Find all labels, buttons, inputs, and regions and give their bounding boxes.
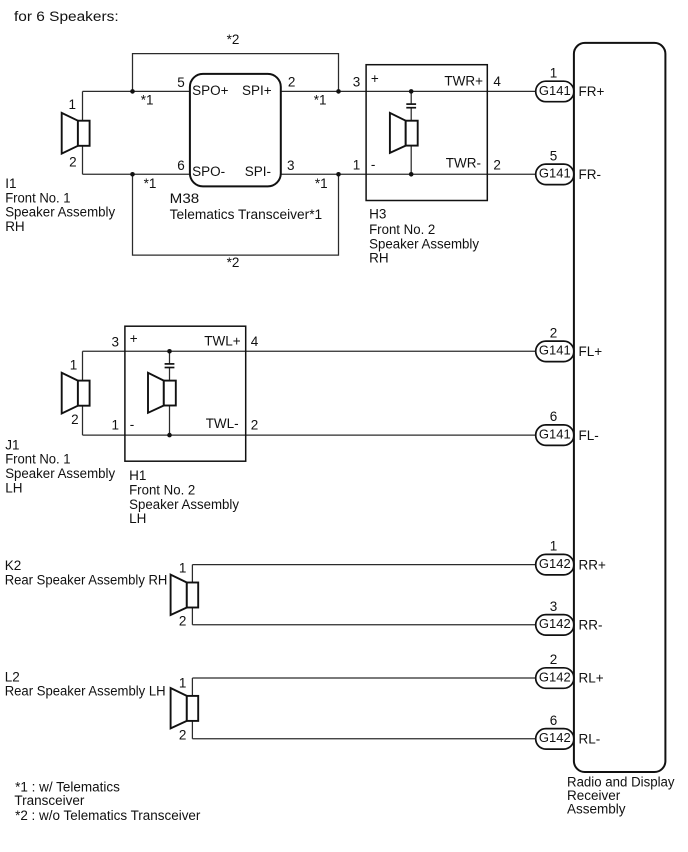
svg-text:G141: G141 <box>539 427 571 442</box>
svg-text:4: 4 <box>251 334 259 349</box>
svg-text:SPO-: SPO- <box>192 164 225 179</box>
svg-text:2: 2 <box>493 158 501 173</box>
svg-text:RL+: RL+ <box>579 671 604 686</box>
svg-text:FR-: FR- <box>579 167 602 182</box>
node junction H1 bottom <box>167 433 172 438</box>
svg-text:2: 2 <box>179 727 187 742</box>
svg-text:Speaker Assembly: Speaker Assembly <box>129 497 239 512</box>
node junction H1 top <box>167 349 172 354</box>
wire FR+ net: I1 pin1 to M38 SPO+ <box>83 90 190 92</box>
svg-text:*1: *1 <box>144 176 157 191</box>
connector G141 pin6 FL- <box>536 425 574 446</box>
svg-text:*1: *1 <box>315 176 328 191</box>
label block I1 <box>5 176 115 234</box>
svg-text:1: 1 <box>111 418 119 433</box>
wire FR+ net: M38 SPI+ to H3 to G141 <box>281 90 536 92</box>
node junction H3 bottom <box>409 172 414 177</box>
svg-text:Front No. 1: Front No. 1 <box>5 191 70 206</box>
wire *2 bypass bottom <box>133 174 339 255</box>
svg-text:RH: RH <box>369 251 389 266</box>
svg-text:*2: *2 <box>227 32 240 47</box>
svg-text:2: 2 <box>288 74 296 89</box>
svg-text:+: + <box>130 331 138 346</box>
svg-text:FL+: FL+ <box>579 344 603 359</box>
svg-text:L2: L2 <box>5 669 20 684</box>
footnote *1 <box>14 780 120 809</box>
svg-text:G141: G141 <box>539 166 571 181</box>
svg-text:1: 1 <box>550 65 558 80</box>
svg-text:Front No. 2: Front No. 2 <box>369 222 435 237</box>
svg-text:Speaker Assembly: Speaker Assembly <box>5 466 115 481</box>
svg-text:*1: *1 <box>141 92 154 107</box>
wire K2 vertical <box>191 565 193 625</box>
svg-text:1: 1 <box>179 675 187 690</box>
svg-text:TWR-: TWR- <box>446 156 481 171</box>
svg-text:Front No. 2: Front No. 2 <box>129 483 195 498</box>
node junction FR+ left <box>130 89 135 94</box>
svg-text:LH: LH <box>129 511 146 526</box>
svg-text:G142: G142 <box>539 616 571 631</box>
svg-text:3: 3 <box>550 599 558 614</box>
wire RL+ net <box>192 677 535 679</box>
svg-text:2: 2 <box>71 412 79 427</box>
radio and display receiver assembly box <box>574 43 666 772</box>
node junction H3 top <box>409 89 414 94</box>
svg-text:2: 2 <box>550 325 558 340</box>
capacitor in H3 <box>406 103 416 105</box>
wire RR- net <box>192 624 535 626</box>
speaker I1 symbol <box>62 113 90 154</box>
label block J1 <box>5 437 115 495</box>
svg-text:6: 6 <box>177 158 185 173</box>
svg-text:for 6 Speakers:: for 6 Speakers: <box>14 9 119 24</box>
svg-text:LH: LH <box>5 480 22 495</box>
svg-text:K2: K2 <box>5 558 22 573</box>
wire *2 bypass top <box>133 54 339 92</box>
wire H1 internal vertical <box>169 351 171 364</box>
svg-text:RH: RH <box>5 219 25 234</box>
connector G141 pin1 FR+ <box>536 81 574 102</box>
label block radio receiver <box>567 774 675 816</box>
connector G141 pin2 FL+ <box>536 341 574 362</box>
wire FL- net <box>83 434 536 436</box>
svg-text:RR+: RR+ <box>579 557 606 572</box>
svg-text:3: 3 <box>287 158 295 173</box>
svg-text:6: 6 <box>550 409 558 424</box>
label block M38 <box>170 191 323 222</box>
svg-text:-: - <box>371 157 376 172</box>
capacitor in H1 <box>165 363 175 365</box>
wire FR- net: I1 pin2 to M38 SPO- <box>83 173 190 175</box>
svg-text:Rear Speaker Assembly LH: Rear Speaker Assembly LH <box>5 684 166 699</box>
wire RL- net <box>192 738 535 740</box>
label block L2 <box>5 669 166 698</box>
svg-text:RL-: RL- <box>579 732 601 747</box>
svg-text:1: 1 <box>70 357 78 372</box>
svg-text:G142: G142 <box>539 730 571 745</box>
wire H3 internal vertical <box>410 91 412 104</box>
svg-text:SPO+: SPO+ <box>192 83 229 98</box>
svg-text:5: 5 <box>550 148 558 163</box>
wire J1 vertical <box>82 351 84 435</box>
svg-text:2: 2 <box>550 652 558 667</box>
connector G142 pin1 RR+ <box>536 554 574 575</box>
svg-text:3: 3 <box>353 74 361 89</box>
label block K2 <box>5 558 168 587</box>
svg-text:1: 1 <box>550 539 558 554</box>
svg-text:*2 : w/o Telematics Transceive: *2 : w/o Telematics Transceiver <box>15 808 201 823</box>
connector G141 pin5 FR- <box>536 164 574 185</box>
svg-text:H3: H3 <box>369 206 386 221</box>
label block H3 <box>369 206 479 265</box>
svg-text:TWR+: TWR+ <box>444 74 483 89</box>
svg-text:Transceiver: Transceiver <box>14 793 85 808</box>
wire FR- net: M38 SPI- to H3 to G141 <box>281 173 536 175</box>
wire FL+ net <box>83 350 536 352</box>
svg-text:TWL+: TWL+ <box>204 333 240 348</box>
speaker tweeter symbol in H1 <box>148 373 176 413</box>
svg-text:Telematics Transceiver*1: Telematics Transceiver*1 <box>170 207 323 222</box>
node junction FR+ right <box>336 89 341 94</box>
svg-text:*1: *1 <box>314 92 327 107</box>
svg-text:+: + <box>371 71 379 86</box>
svg-text:SPI-: SPI- <box>245 164 271 179</box>
svg-text:SPI+: SPI+ <box>242 83 272 98</box>
svg-text:5: 5 <box>177 75 185 90</box>
connector G142 pin3 RR- <box>536 615 574 636</box>
connector G142 pin6 RL- <box>536 729 574 750</box>
svg-text:G141: G141 <box>539 343 571 358</box>
speaker assembly H1 box <box>125 326 246 461</box>
svg-text:H1: H1 <box>129 468 146 483</box>
svg-text:G142: G142 <box>539 669 571 684</box>
svg-text:*2: *2 <box>227 255 240 270</box>
wire RR+ net <box>192 564 535 566</box>
svg-text:Rear Speaker Assembly RH: Rear Speaker Assembly RH <box>5 572 168 587</box>
speaker tweeter symbol in H3 <box>390 113 418 153</box>
svg-text:2: 2 <box>69 154 77 169</box>
svg-text:6: 6 <box>550 713 558 728</box>
svg-text:2: 2 <box>251 417 259 432</box>
svg-text:2: 2 <box>179 613 187 628</box>
speaker assembly H3 box <box>366 65 487 201</box>
svg-text:1: 1 <box>179 561 187 576</box>
svg-text:G142: G142 <box>539 556 571 571</box>
speaker K2 symbol <box>171 575 199 615</box>
svg-text:RR-: RR- <box>579 618 603 633</box>
svg-text:TWL-: TWL- <box>206 416 239 431</box>
speaker L2 symbol <box>171 688 199 728</box>
svg-text:M38: M38 <box>170 191 200 206</box>
svg-text:FL-: FL- <box>579 428 599 443</box>
node junction FR- left <box>130 172 135 177</box>
wire L2 vertical <box>191 678 193 739</box>
svg-text:3: 3 <box>111 334 119 349</box>
speaker J1 symbol <box>62 373 90 414</box>
svg-text:Speaker Assembly: Speaker Assembly <box>5 205 115 220</box>
wire I1 vertical <box>82 91 84 174</box>
svg-text:I1: I1 <box>5 176 16 191</box>
connector G142 pin2 RL+ <box>536 668 574 689</box>
label block H1 <box>129 468 239 526</box>
svg-text:J1: J1 <box>5 437 19 452</box>
svg-text:1: 1 <box>353 158 361 173</box>
svg-text:FR+: FR+ <box>579 84 605 99</box>
svg-text:1: 1 <box>68 97 76 112</box>
svg-text:4: 4 <box>493 74 501 89</box>
svg-text:Assembly: Assembly <box>567 802 626 817</box>
svg-text:G141: G141 <box>539 83 571 98</box>
svg-text:Front No. 1: Front No. 1 <box>5 452 70 467</box>
svg-text:-: - <box>130 417 135 432</box>
svg-text:Speaker Assembly: Speaker Assembly <box>369 236 479 251</box>
telematics transceiver M38 box <box>190 74 281 186</box>
node junction FR- right <box>336 172 341 177</box>
